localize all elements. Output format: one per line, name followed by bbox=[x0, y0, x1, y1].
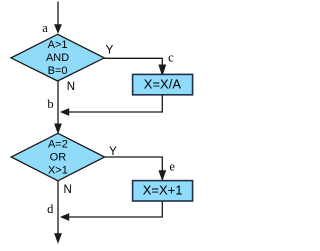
svg-text:X=X+1: X=X+1 bbox=[143, 183, 183, 198]
wire feedback from X=X/A to node b junction bbox=[60, 95, 162, 116]
svg-text:a: a bbox=[42, 21, 48, 35]
svg-text:Y: Y bbox=[106, 44, 114, 56]
svg-text:B=0: B=0 bbox=[48, 65, 68, 77]
svg-text:N: N bbox=[63, 184, 71, 196]
wire N branch B1 down to decision B2 bbox=[54, 81, 62, 134]
wire Y branch B2 to box X=X+1 bbox=[105, 157, 167, 181]
process box X=X+1 bbox=[133, 181, 193, 201]
svg-text:d: d bbox=[47, 202, 54, 216]
svg-text:X=X/A: X=X/A bbox=[144, 77, 182, 92]
wire feedback from X=X+1 to node d junction bbox=[60, 201, 162, 221]
svg-text:AND: AND bbox=[46, 52, 69, 64]
svg-text:e: e bbox=[169, 160, 175, 174]
svg-text:N: N bbox=[67, 81, 75, 93]
svg-text:A=2: A=2 bbox=[48, 138, 68, 150]
svg-text:b: b bbox=[47, 97, 53, 111]
svg-text:X>1: X>1 bbox=[48, 164, 68, 176]
svg-text:OR: OR bbox=[50, 151, 67, 163]
process box X=X/A bbox=[133, 74, 193, 94]
svg-text:Y: Y bbox=[109, 146, 117, 158]
wire exit arrow from node d bbox=[54, 181, 62, 244]
svg-text:c: c bbox=[168, 51, 174, 65]
decision diamond B1: A>1 AND B=0 bbox=[11, 34, 104, 81]
wire Y branch B1 to box X=X/A bbox=[104, 58, 166, 77]
decision diamond B2: A=2 OR X>1 bbox=[11, 133, 104, 181]
wire entry arrow into node a bbox=[54, 2, 62, 34]
svg-text:A>1: A>1 bbox=[48, 39, 68, 51]
